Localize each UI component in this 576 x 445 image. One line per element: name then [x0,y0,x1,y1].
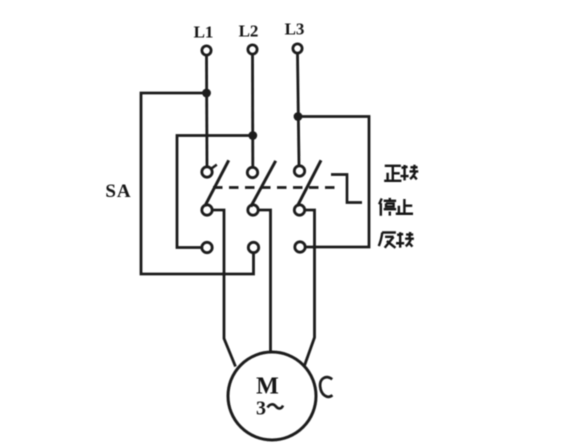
wire L3 down to pole-3 top contact [298,54,300,166]
pole 1 contact tick [211,165,217,169]
wire pole-3 moving contact to motor W [305,210,315,366]
switch SA pole 3 top contact [294,166,304,176]
switch SA pole 1 moving contact [202,205,212,215]
terminal L3 [285,20,305,54]
wire L2 down to pole-2 top contact [251,55,254,168]
handle position indicator bracket [331,175,362,203]
svg-text:M: M [256,374,279,400]
switch SA pole 3 bottom contact [295,242,305,252]
wire pole-2 moving contact to motor V [259,210,271,353]
switch SA pole 3 blade [297,160,321,206]
node L2 junction [248,131,257,140]
switch SA pole 1 blade [205,160,229,206]
switch SA pole 2 moving contact [248,205,258,215]
switch SA pole 3 moving contact [294,205,304,215]
svg-text:L3: L3 [285,20,305,39]
terminal L1 [194,23,214,56]
node L3 junction [294,112,303,121]
wire pole-1 moving contact to motor U [213,210,236,367]
wire L3 loop: L3 junction right and down to pole-3 bottom contact [298,117,369,248]
mechanical link dashed line [213,186,336,189]
svg-text:SA: SA [105,181,131,202]
wire SA left loop: L1 junction to pole-2 bottom contact [141,93,254,274]
switch SA pole 2 bottom contact [248,242,258,252]
wire L1 down to pole-1 top contact [205,56,208,167]
wire L2 loop: L2 junction to pole-1 bottom contact [177,136,253,248]
switch SA pole 1 bottom contact [202,242,212,252]
label reverse (fan zhuan) [379,232,414,248]
terminal L2 [239,22,259,55]
switch SA pole 1 top contact [202,167,212,177]
label stop (ting zhi) [379,198,413,216]
svg-text:L1: L1 [194,23,214,42]
svg-text:L2: L2 [239,22,259,41]
node L1 junction [202,89,211,98]
motor M circle [228,352,316,440]
switch SA pole 2 blade [251,161,276,207]
switch SA pole 2 top contact [247,167,257,177]
label forward (zheng zhuan) [384,165,418,181]
annotation C mark [320,377,332,396]
svg-text:3: 3 [256,398,266,420]
